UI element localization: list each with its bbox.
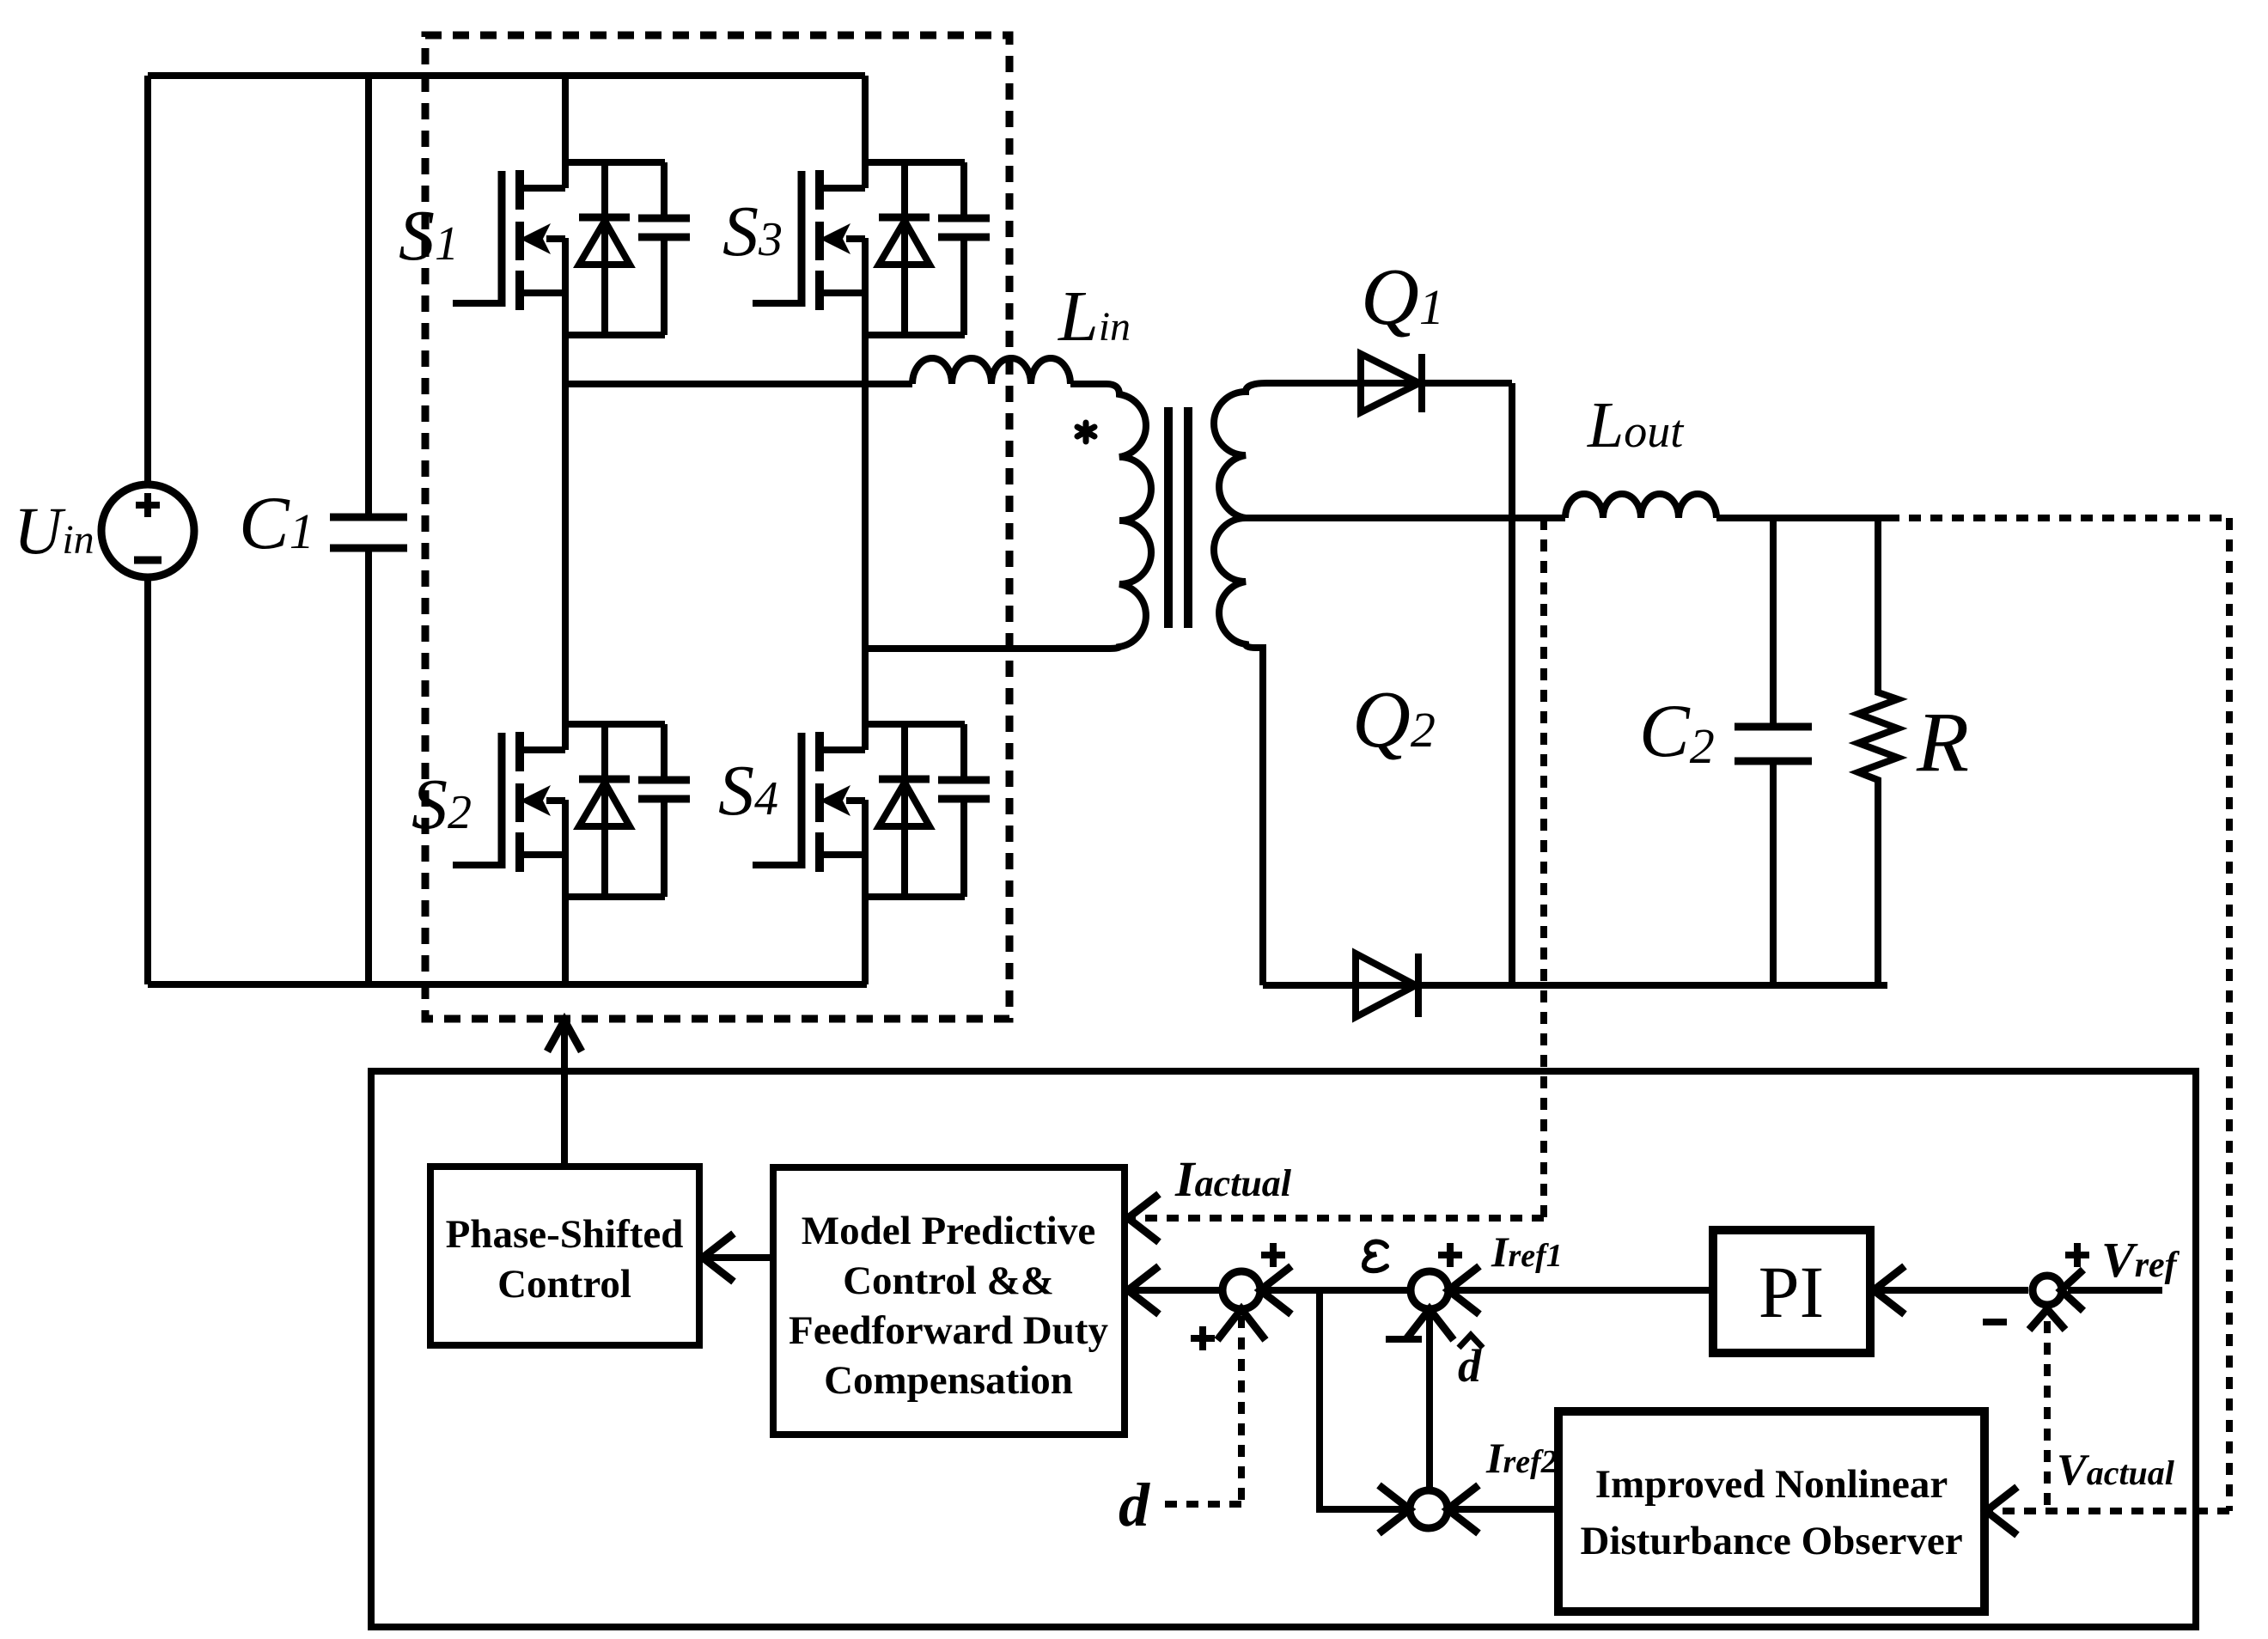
svg-text:Feedforward Duty: Feedforward Duty <box>789 1308 1109 1353</box>
svg-text:d: d <box>1119 1471 1150 1539</box>
svg-text:Improved Nonlinear: Improved Nonlinear <box>1595 1462 1948 1507</box>
svg-text:Disturbance Observer: Disturbance Observer <box>1580 1519 1962 1563</box>
svg-text:PI: PI <box>1759 1251 1824 1333</box>
svg-text:Model Predictive: Model Predictive <box>802 1209 1095 1253</box>
svg-text:R: R <box>1916 694 1969 789</box>
svg-text:Control &&: Control && <box>843 1258 1054 1303</box>
svg-text:Compensation: Compensation <box>824 1358 1073 1403</box>
svg-text:Vactual: Vactual <box>2057 1446 2175 1495</box>
svg-text:Phase-Shifted: Phase-Shifted <box>446 1212 684 1257</box>
svg-text:Control: Control <box>497 1262 631 1307</box>
